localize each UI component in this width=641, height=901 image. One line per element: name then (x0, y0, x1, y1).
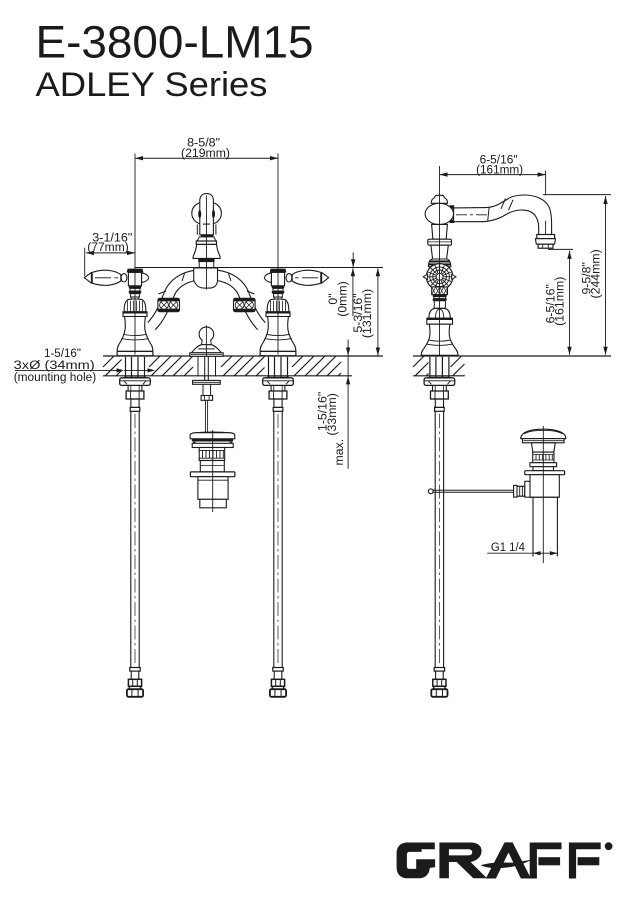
side drain neck (531, 443, 555, 452)
svg-text:(33mm): (33mm) (325, 393, 339, 435)
svg-text:(mounting hole): (mounting hole) (14, 370, 97, 384)
right column centerline (277, 154, 279, 355)
bridge union nut right (234, 298, 256, 311)
side view counter deck cross-section with hatching (413, 355, 611, 357)
side column lower neck (431, 245, 448, 259)
drain second plate (192, 443, 233, 447)
spout top loop (front view) side circles (192, 202, 214, 224)
left column with handle (84, 269, 153, 356)
side drain elbow port (525, 481, 532, 497)
pop-up lift knob (199, 327, 214, 342)
front view counter deck cross-section with hatching (103, 355, 383, 357)
spout centerline (206, 196, 208, 290)
side column ring collar (428, 239, 452, 245)
side drain cap rim (523, 439, 565, 443)
dimension 1-5/16 inch (33mm) max deck thickness (347, 340, 349, 469)
drain foot (200, 499, 227, 508)
svg-text:(131mm): (131mm) (360, 289, 374, 338)
drain dark seal band (192, 439, 234, 442)
pop-up rod flange under deck (193, 380, 221, 384)
pop-up drain assembly front view - top plate (190, 433, 235, 439)
side drain body (530, 475, 559, 498)
spout riser capsule (200, 194, 214, 235)
svg-text:(244mm): (244mm) (588, 249, 602, 298)
side view supply tube (424, 357, 455, 697)
dimension 9-5/8 inch (244mm) overall height (605, 196, 607, 355)
GRAFF logo registered trademark symbol (605, 842, 613, 850)
GRAFF logo letter R (439, 843, 486, 879)
spout outlet aerator (537, 235, 555, 239)
mounting hole leader line and arrows (15, 369, 117, 371)
spout loop inner shadows (198, 210, 201, 218)
svg-text:R: R (607, 845, 611, 851)
spout base dark band (198, 258, 214, 262)
side drain castellated section (533, 452, 554, 463)
svg-text:(161mm): (161mm) (553, 277, 567, 326)
GRAFF logo letter G (397, 843, 436, 879)
spout bell (193, 244, 220, 258)
side drain flange (530, 463, 557, 467)
side column vase base (421, 324, 458, 355)
spout neck below loop (196, 225, 198, 235)
dimension 6-5/16 inch (161mm) outlet height (569, 251, 571, 355)
bridge pipe left (black outline) (152, 275, 197, 326)
center spout body block (194, 268, 218, 288)
side drain tailpiece (532, 497, 534, 556)
pop-up rod through deck (197, 356, 199, 376)
bridge pipe right (black outline) (217, 275, 262, 326)
side column knurled collar below ball (432, 287, 448, 295)
side drain centerline (542, 426, 544, 563)
spout socket at column (449, 206, 451, 223)
svg-text:G1 1/4: G1 1/4 (491, 540, 525, 554)
spout collar dark band (201, 234, 214, 237)
drain upper body (200, 461, 224, 472)
GRAFF logo letter A with wave crossbar (486, 842, 531, 878)
reference line spout top (543, 194, 611, 196)
drain centerline (212, 430, 214, 512)
right column with handle (mirrored) (260, 269, 329, 356)
side column upper neck (432, 224, 448, 239)
side column head ball (425, 203, 453, 224)
spout centerline dashes (456, 214, 487, 216)
drain washer tabs (192, 442, 196, 444)
side column rosette ball ornament (426, 264, 452, 290)
bridge pipe centerline ticks (159, 274, 255, 295)
spout collar ring (196, 241, 216, 244)
GRAFF logo letter F first (530, 843, 562, 879)
drain main body (198, 477, 228, 500)
side column scalloped bonnet (429, 308, 450, 318)
side drain rod packing nut (514, 486, 525, 496)
side column finial (431, 195, 447, 203)
side drain pop-up rod horizontal (433, 489, 514, 491)
left supply tube (120, 357, 151, 697)
side column centerline (439, 166, 441, 355)
svg-text:max.: max. (332, 439, 346, 466)
side column collar band (427, 318, 453, 324)
pop-up knob centerline (205, 326, 207, 357)
pop-up rod adjuster nut (201, 396, 213, 401)
side column stacked rings (433, 295, 447, 297)
right supply tube (263, 357, 294, 697)
spout flare (197, 237, 216, 241)
drain wide collar (190, 472, 235, 477)
drain castellated section (199, 448, 225, 461)
dimension 5-3/16 inch (131mm) spout height over deck (377, 268, 379, 355)
spout base neck (198, 262, 200, 267)
reference line at handle top (0 mm datum) (135, 267, 383, 269)
side column shoulder with bands (428, 259, 451, 267)
side drain wide flange (525, 471, 565, 475)
svg-text:E-3800-LM15: E-3800-LM15 (36, 16, 314, 67)
side view spout body (453, 195, 551, 235)
svg-text:ADLEY Series: ADLEY Series (36, 66, 268, 104)
pop-up rod upper post (202, 384, 204, 395)
side column small neck (434, 301, 446, 309)
pop-up rod lower wire (204, 400, 206, 432)
side drain narrow ring (533, 467, 554, 471)
reference line spout outlet (548, 248, 573, 250)
GRAFF logo letter F second (569, 843, 601, 879)
left column centerline (134, 154, 136, 355)
svg-text:(0mm): (0mm) (335, 281, 349, 317)
dimension 0 inch (0mm) datum (352, 252, 354, 267)
side drain mushroom cap (521, 429, 566, 438)
